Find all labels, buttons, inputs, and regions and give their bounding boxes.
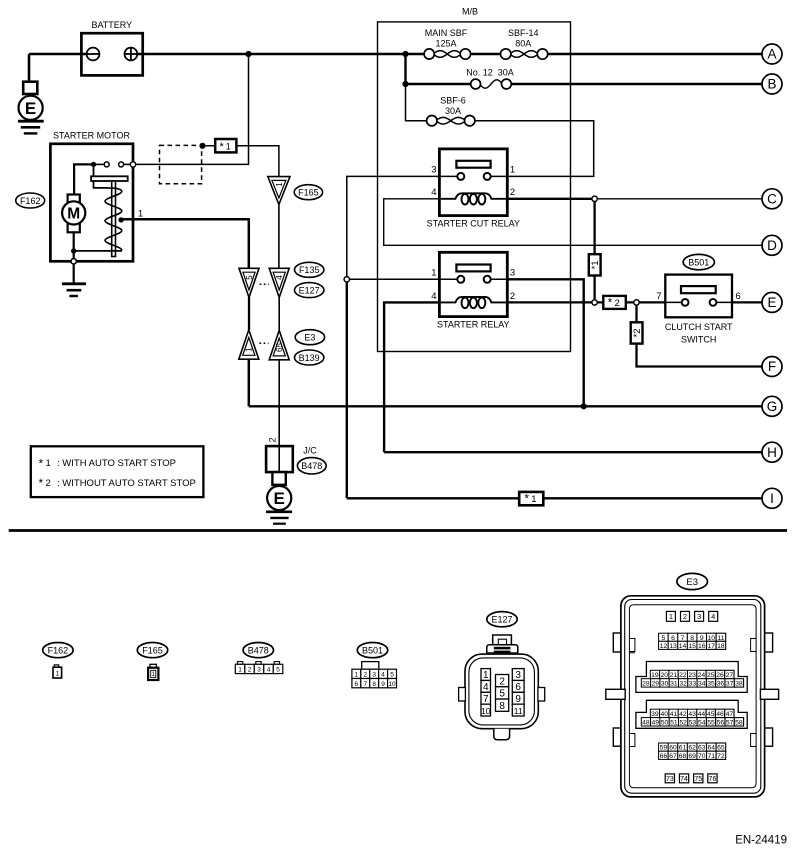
svg-text:60: 60 — [669, 745, 677, 752]
component *1 box on I-line — [519, 492, 543, 506]
wire U2 pin4 to H-line — [384, 302, 439, 452]
wire triangle 1 down to G-line corner — [248, 359, 251, 406]
svg-text:B501: B501 — [688, 257, 709, 267]
fuse No. 12 30A — [466, 68, 514, 89]
wire E junction segments to clutch switch — [597, 301, 762, 303]
node junction circle on E-line — [592, 300, 597, 305]
label B139 oval — [295, 350, 324, 365]
terminal F — [762, 357, 782, 377]
svg-text:7: 7 — [363, 681, 367, 688]
node solenoid pin 1 dot — [118, 217, 123, 222]
svg-text:9: 9 — [515, 694, 521, 705]
terminal A — [762, 44, 782, 64]
svg-text:50: 50 — [661, 719, 669, 726]
node M/B junction dot A-line — [402, 51, 408, 57]
svg-text:62: 62 — [688, 745, 696, 752]
svg-text:B478: B478 — [301, 461, 322, 471]
svg-text:1: 1 — [431, 267, 436, 278]
ground starter motor ground — [62, 264, 86, 296]
svg-text:MAIN SBF: MAIN SBF — [425, 28, 468, 38]
svg-text:STARTER MOTOR: STARTER MOTOR — [53, 131, 131, 141]
svg-text:H: H — [767, 445, 777, 460]
connector diagram E3 pins 59-65 — [659, 743, 726, 752]
wire U1 pin4 to D-line — [384, 199, 762, 246]
fuse MAIN SBF 125A — [424, 28, 470, 59]
svg-text:3: 3 — [510, 267, 515, 278]
svg-text:4: 4 — [267, 667, 271, 674]
svg-text:25: 25 — [707, 672, 715, 679]
svg-text:9: 9 — [381, 681, 385, 688]
svg-text:6: 6 — [515, 682, 521, 693]
svg-text:4: 4 — [381, 672, 385, 679]
svg-text:76: 76 — [709, 776, 717, 783]
svg-text:5: 5 — [276, 667, 280, 674]
wire dot through *1 box to F165 triangle — [206, 146, 279, 177]
svg-text:B501: B501 — [362, 645, 383, 655]
svg-text:56: 56 — [717, 719, 725, 726]
svg-text:24: 24 — [698, 672, 706, 679]
svg-text:71: 71 — [708, 753, 716, 760]
svg-text:70: 70 — [698, 753, 706, 760]
svg-text:47: 47 — [726, 711, 734, 718]
svg-text:20: 20 — [660, 672, 668, 679]
wire battery positive feed to A — [29, 54, 762, 82]
svg-text:*: * — [39, 478, 44, 490]
svg-text:*: * — [39, 458, 44, 470]
connector diagram E3 pins 66-72 — [659, 751, 726, 760]
svg-text:3: 3 — [697, 612, 701, 621]
svg-text:37: 37 — [726, 681, 734, 688]
svg-text:5: 5 — [390, 672, 394, 679]
svg-text:2: 2 — [510, 187, 515, 198]
svg-text:M/B: M/B — [462, 7, 478, 17]
svg-text:74: 74 — [680, 776, 688, 783]
svg-text:28: 28 — [642, 681, 650, 688]
svg-text:*2: *2 — [632, 329, 643, 338]
wire U2 pin2 to E junction — [507, 301, 592, 303]
dashed box auto start stop option — [160, 145, 202, 183]
wire I-line — [347, 497, 762, 499]
terminal H — [762, 442, 782, 462]
svg-text:STARTER CUT RELAY: STARTER CUT RELAY — [427, 219, 520, 229]
svg-text:48: 48 — [642, 719, 650, 726]
svg-text:CLUTCH START: CLUTCH START — [665, 322, 733, 332]
svg-text:45: 45 — [707, 711, 715, 718]
wire contact dot to first contact point — [94, 163, 105, 165]
svg-text:31: 31 — [670, 681, 678, 688]
svg-text:72: 72 — [717, 753, 725, 760]
node dot at dashed box corner — [199, 143, 205, 149]
svg-text:41: 41 — [670, 711, 678, 718]
wire triangle 5 to triangle 1 — [248, 298, 250, 331]
M/B fuse box outline — [378, 22, 571, 352]
terminal C — [762, 189, 782, 209]
svg-text:E: E — [274, 489, 285, 508]
svg-text:68: 68 — [679, 753, 687, 760]
node solenoid contact dot — [91, 162, 96, 167]
component *2 box on E-line — [603, 296, 626, 310]
wire U2 pin3 to G-line — [507, 279, 583, 406]
svg-text:F162: F162 — [48, 645, 69, 655]
svg-text:1: 1 — [275, 182, 284, 187]
svg-text:4: 4 — [483, 682, 489, 693]
connector diagram E3 pins 73-76 — [665, 774, 717, 783]
node open circle at starter motor box bottom — [71, 259, 76, 264]
svg-text:*1: *1 — [590, 260, 601, 269]
wire dotted pair link 1-65 — [259, 342, 268, 344]
svg-text:34: 34 — [698, 681, 706, 688]
svg-text:61: 61 — [679, 745, 687, 752]
svg-text:30A: 30A — [445, 106, 461, 116]
connector triangle 4 E127 — [269, 268, 289, 297]
svg-text:E127: E127 — [299, 285, 320, 295]
svg-text:11: 11 — [514, 706, 523, 716]
wire C junction to terminal C — [597, 198, 762, 200]
svg-text:D: D — [767, 238, 777, 253]
svg-text:3: 3 — [372, 672, 376, 679]
svg-text:1: 1 — [226, 141, 231, 151]
svg-text:23: 23 — [688, 672, 696, 679]
wire motor branch — [74, 164, 93, 194]
svg-text:F162: F162 — [20, 196, 41, 206]
connector diagram E3 pins 5-11 — [659, 633, 726, 642]
svg-text:2: 2 — [615, 298, 620, 309]
svg-text:3: 3 — [431, 164, 436, 175]
svg-text:59: 59 — [660, 745, 668, 752]
svg-text:4: 4 — [275, 275, 284, 280]
svg-text:SBF-14: SBF-14 — [508, 28, 539, 38]
svg-text:10: 10 — [481, 706, 491, 716]
svg-text:35: 35 — [707, 681, 715, 688]
wire C junction down to vertical *1 box — [593, 202, 595, 255]
connector triangle F165 — [268, 177, 323, 205]
svg-text:36: 36 — [717, 681, 725, 688]
wire second contact point to box edge — [124, 163, 134, 165]
svg-text:E3: E3 — [686, 577, 698, 588]
connector diagram B478 — [235, 643, 282, 674]
svg-text:40: 40 — [660, 711, 668, 718]
label E3 oval — [295, 330, 324, 345]
wire I-loop down to I-line — [346, 282, 348, 498]
connector diagram E3 pins 19-27 — [650, 670, 734, 679]
svg-text:4: 4 — [431, 291, 436, 302]
wire triangle 65 down to J/C — [278, 360, 280, 446]
label F135 oval — [295, 262, 324, 277]
svg-text:26: 26 — [716, 672, 724, 679]
svg-text:51: 51 — [670, 719, 678, 726]
svg-text:*: * — [524, 494, 529, 506]
svg-text:2: 2 — [248, 667, 252, 674]
divider line — [9, 529, 787, 532]
wire U2 pin1 from I-loop junction — [350, 278, 440, 280]
svg-text:33: 33 — [689, 681, 697, 688]
svg-text:1: 1 — [46, 458, 51, 469]
wire contact dot down to solenoid coil — [94, 164, 109, 188]
svg-text:1: 1 — [56, 671, 60, 678]
wire vertical *1 box to E junction — [593, 276, 595, 300]
svg-text:*: * — [219, 141, 224, 153]
wire starter motor pin 1 to triangle 5 column — [121, 219, 249, 268]
svg-text:55: 55 — [707, 719, 715, 726]
svg-text:2: 2 — [267, 437, 277, 442]
svg-text:5: 5 — [499, 689, 505, 700]
svg-text:5: 5 — [245, 275, 254, 280]
svg-text:63: 63 — [698, 745, 706, 752]
svg-text:13: 13 — [669, 643, 677, 650]
solenoid coil spring — [105, 188, 122, 250]
connector diagram E3 pins 12-18 — [659, 641, 726, 650]
svg-text:52: 52 — [679, 719, 687, 726]
ground J/C E ground — [266, 486, 292, 524]
svg-text:1: 1 — [355, 672, 359, 679]
svg-text:12: 12 — [660, 643, 668, 650]
legend note box — [31, 446, 204, 497]
relay U1 STARTER CUT RELAY — [427, 149, 520, 229]
svg-text:1: 1 — [510, 164, 515, 175]
svg-text:18: 18 — [717, 643, 725, 650]
svg-text:54: 54 — [698, 719, 706, 726]
relay U2 STARTER RELAY — [431, 252, 515, 329]
wire SBF-6 branch down from B-line junction through to starter cut relay pin 1 — [406, 84, 594, 176]
svg-text:19: 19 — [651, 672, 659, 679]
component vertical *1 box — [589, 254, 601, 275]
svg-text:49: 49 — [651, 719, 659, 726]
svg-text:38: 38 — [735, 681, 743, 688]
svg-text:22: 22 — [679, 672, 687, 679]
connector diagram E3 shell — [606, 573, 779, 797]
svg-text:7: 7 — [483, 694, 489, 705]
svg-text:6: 6 — [355, 681, 359, 688]
svg-text:E: E — [25, 99, 36, 118]
fuse SBF-14 80A — [501, 28, 548, 59]
svg-text:21: 21 — [670, 672, 678, 679]
svg-text:J/C: J/C — [303, 445, 317, 455]
wire triangle 4 to triangle 65 — [278, 298, 280, 330]
connector triangle 1 E3 upward — [239, 330, 259, 359]
svg-text:57: 57 — [726, 719, 734, 726]
wire G-line — [249, 405, 762, 407]
wire battery feed down to starter motor contact — [136, 54, 249, 164]
svg-text:1: 1 — [245, 347, 254, 352]
svg-text:58: 58 — [735, 719, 743, 726]
svg-text:8: 8 — [372, 681, 376, 688]
motor M — [62, 195, 85, 233]
svg-text:4: 4 — [711, 612, 715, 621]
wire B-line to terminal B — [406, 83, 763, 85]
svg-text:B478: B478 — [248, 645, 269, 655]
svg-text:16: 16 — [698, 643, 706, 650]
node contact open circles — [104, 162, 109, 167]
component vertical *2 box — [631, 322, 643, 343]
svg-text:69: 69 — [688, 753, 696, 760]
component B501 CLUTCH START SWITCH — [656, 254, 740, 344]
svg-text:65: 65 — [275, 343, 284, 352]
svg-text:53: 53 — [689, 719, 697, 726]
svg-text:30: 30 — [661, 681, 669, 688]
node junction circle before clutch switch — [634, 300, 639, 305]
svg-text:4: 4 — [431, 187, 436, 198]
svg-text:G: G — [767, 399, 778, 414]
svg-text:F: F — [768, 359, 776, 374]
svg-text:1: 1 — [531, 494, 536, 505]
connector diagram E3 pins 28-38 — [641, 679, 743, 688]
terminal D — [762, 235, 782, 255]
connector triangle 5 F135 — [239, 268, 259, 297]
terminal B — [762, 74, 782, 94]
label E127 oval — [295, 283, 324, 298]
wire motor to bottom junction — [73, 232, 75, 261]
wire bottom dot to coil bottom — [74, 250, 122, 252]
svg-text:2: 2 — [499, 676, 505, 687]
svg-text:I: I — [770, 491, 774, 506]
svg-text:1: 1 — [138, 209, 143, 220]
node motor bottom dot — [71, 248, 76, 253]
svg-text:2: 2 — [363, 672, 367, 679]
svg-text:E127: E127 — [491, 615, 512, 625]
svg-text:29: 29 — [651, 681, 659, 688]
connector diagram F165 — [137, 643, 167, 681]
svg-text:E3: E3 — [304, 333, 315, 343]
terminal E — [762, 292, 782, 312]
svg-text:6: 6 — [735, 291, 740, 302]
svg-text:*: * — [608, 298, 613, 310]
svg-text:8: 8 — [499, 701, 505, 712]
connector diagram F162 — [43, 643, 73, 679]
node battery junction dot — [245, 51, 251, 57]
svg-text:1: 1 — [238, 667, 242, 674]
wire U1 pin3 to I-line loop — [347, 176, 440, 276]
svg-text:42: 42 — [679, 711, 687, 718]
svg-text:67: 67 — [669, 753, 677, 760]
wire U1 pin2 to C junction — [507, 198, 592, 200]
svg-text:15: 15 — [688, 643, 696, 650]
svg-text:SWITCH: SWITCH — [681, 334, 717, 344]
svg-text:43: 43 — [688, 711, 696, 718]
svg-text:B139: B139 — [299, 353, 320, 363]
svg-text:39: 39 — [651, 711, 659, 718]
connector diagram B501 — [352, 643, 397, 688]
connector diagram E3 pins 1-4 — [666, 611, 717, 621]
svg-text:7: 7 — [656, 291, 661, 302]
svg-text:: WITHOUT AUTO START STOP: : WITHOUT AUTO START STOP — [57, 478, 196, 489]
svg-text:66: 66 — [660, 753, 668, 760]
svg-text:3: 3 — [257, 667, 261, 674]
node G junction dot — [581, 403, 587, 409]
svg-text:14: 14 — [679, 643, 687, 650]
svg-text:73: 73 — [666, 776, 674, 783]
connector diagram E3 middle block outline lower — [636, 700, 747, 728]
connector diagram E127 — [459, 612, 545, 740]
connector diagram E3 middle block outline upper — [636, 662, 747, 693]
svg-text:STARTER RELAY: STARTER RELAY — [437, 319, 510, 329]
wire dotted pair link 5-4 — [260, 283, 269, 285]
svg-text:17: 17 — [708, 643, 716, 650]
node junction circle on C-line — [592, 196, 597, 201]
connector diagram E3 pins 48-58 — [641, 718, 743, 727]
wire junction A-line to B-line — [404, 54, 406, 84]
svg-text:SBF-6: SBF-6 — [440, 95, 466, 105]
svg-text:F165: F165 — [142, 645, 163, 655]
svg-text:3: 3 — [515, 670, 521, 681]
svg-text:F165: F165 — [298, 188, 319, 198]
svg-text:125A: 125A — [435, 39, 456, 49]
node M/B junction dot B-line — [402, 81, 408, 87]
svg-text:27: 27 — [726, 672, 734, 679]
svg-text:2: 2 — [683, 612, 687, 621]
wire F branch down through vertical *2 box to terminal F — [637, 305, 763, 366]
ground battery E ground — [18, 82, 44, 134]
node junction circle on I-loop — [344, 277, 349, 282]
svg-text:44: 44 — [698, 711, 706, 718]
svg-text:: WITH AUTO START STOP: : WITH AUTO START STOP — [57, 458, 176, 469]
connector diagram E3 pins 39-47 — [650, 709, 734, 718]
svg-text:1: 1 — [483, 670, 489, 681]
svg-text:80A: 80A — [515, 39, 531, 49]
svg-text:M: M — [67, 205, 80, 222]
fuse SBF-6 30A — [427, 95, 475, 126]
svg-text:A: A — [767, 47, 776, 62]
plunger shaft — [112, 181, 116, 257]
wire H-line — [384, 451, 762, 453]
svg-text:2: 2 — [510, 291, 515, 302]
svg-text:1: 1 — [669, 612, 673, 621]
starter motor STARTER MOTOR — [16, 131, 133, 262]
svg-text:No. 12 30A: No. 12 30A — [466, 68, 514, 78]
plunger T-bar — [91, 176, 128, 181]
svg-text:F135: F135 — [299, 265, 320, 275]
svg-text:75: 75 — [694, 776, 702, 783]
component *1 box top — [215, 139, 236, 153]
svg-text:10: 10 — [388, 681, 396, 688]
svg-text:BATTERY: BATTERY — [91, 20, 132, 30]
connector diagram E127 pin grid — [481, 669, 524, 716]
svg-text:46: 46 — [716, 711, 724, 718]
battery BATTERY — [81, 20, 142, 75]
svg-text:C: C — [767, 192, 777, 207]
svg-text:E: E — [767, 295, 776, 310]
svg-text:32: 32 — [679, 681, 687, 688]
svg-text:EN-24419: EN-24419 — [735, 835, 787, 847]
wire F165 down to triangle 4 — [278, 205, 280, 269]
connector triangle 65 B139 upward — [269, 330, 289, 359]
component J/C B478 junction connector — [266, 437, 326, 484]
terminal G — [762, 396, 782, 416]
svg-text:2: 2 — [46, 478, 51, 489]
svg-text:B: B — [767, 77, 776, 92]
terminal I — [762, 488, 782, 508]
